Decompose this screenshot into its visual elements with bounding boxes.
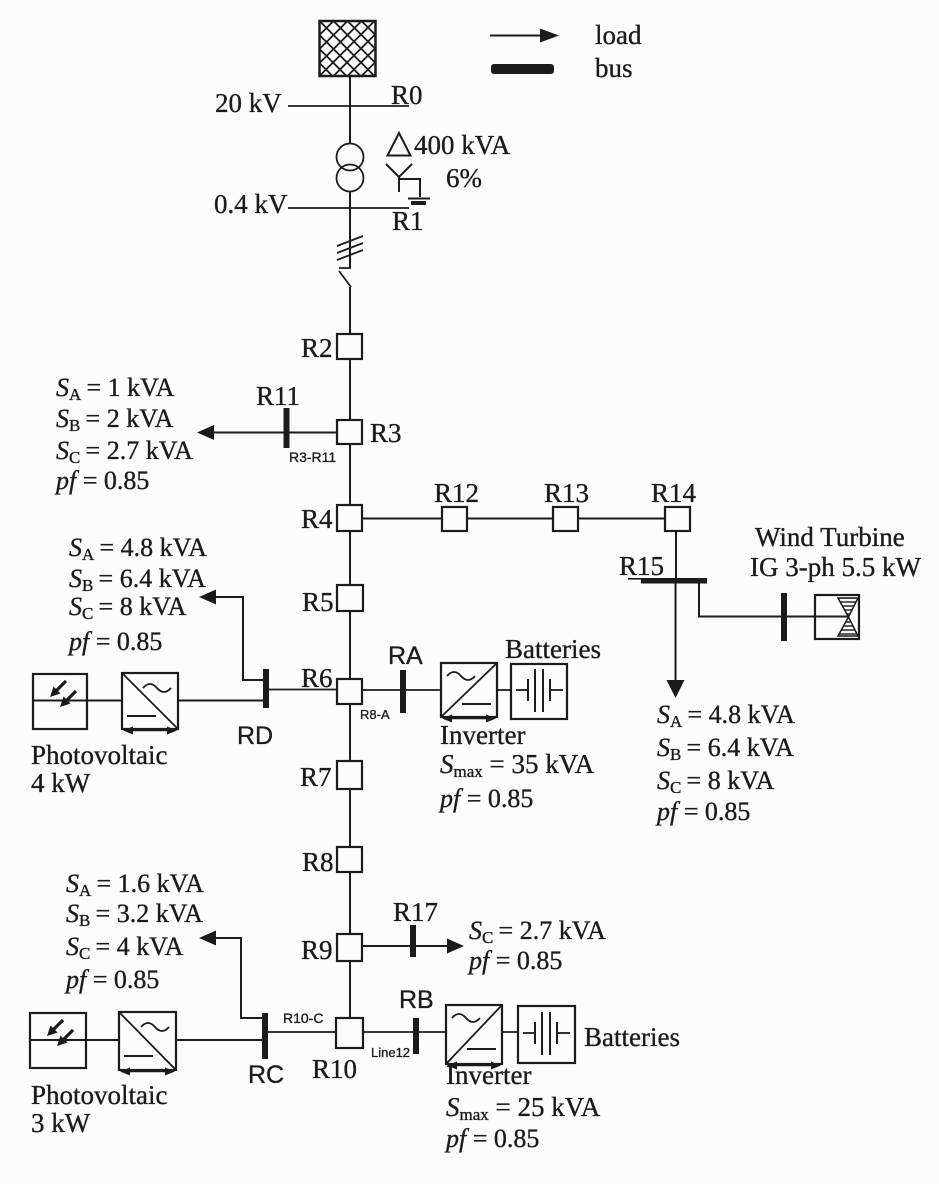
wire R3 to R4	[349, 444, 351, 505]
wire R6 to R7	[349, 704, 351, 761]
svg-text:Inverter: Inverter	[440, 720, 525, 750]
svg-text:pf = 0.85: pf = 0.85	[438, 784, 533, 813]
node R8 box	[337, 847, 362, 872]
svg-text:R10: R10	[312, 1054, 357, 1084]
svg-text:pf = 0.85: pf = 0.85	[67, 627, 162, 656]
svg-text:RD: RD	[237, 722, 273, 750]
svg-text:R10-C: R10-C	[283, 1010, 323, 1026]
wire RD bus to R6	[269, 689, 337, 691]
svg-text:0.4 kV: 0.4 kV	[214, 189, 288, 219]
load text block right of arrow	[655, 700, 795, 826]
legend bus bar	[491, 64, 554, 74]
wire inverter to RC bus	[176, 1039, 263, 1041]
svg-text:RB: RB	[399, 986, 434, 1014]
delta winding symbol	[388, 133, 411, 156]
svg-text:SB = 6.4 kVA: SB = 6.4 kVA	[657, 733, 794, 764]
transformer T1	[337, 144, 364, 192]
svg-text:R12: R12	[434, 478, 479, 508]
svg-text:pf = 0.85: pf = 0.85	[467, 946, 562, 975]
battery inverter box (35kVA)	[441, 663, 497, 723]
svg-text:Photovoltaic: Photovoltaic	[31, 1080, 168, 1110]
svg-text:pf = 0.85: pf = 0.85	[444, 1124, 539, 1153]
battery inverter box (25kVA)	[446, 1005, 502, 1070]
wind turbine rotor symbol	[838, 598, 858, 617]
svg-text:pf = 0.85: pf = 0.85	[64, 965, 159, 994]
branch R3 to R11 load	[212, 432, 337, 434]
svg-text:4 kW: 4 kW	[31, 768, 91, 798]
wire switch to R2	[349, 287, 351, 334]
batteries box (25kVA)	[518, 1006, 575, 1063]
wire R9 to R10	[349, 961, 351, 1018]
node R4 box	[337, 505, 362, 531]
load text block 2	[67, 533, 207, 656]
wire R14 down to R15 bus	[675, 531, 677, 578]
branch R4 to R14	[362, 518, 677, 520]
node R14 box	[665, 507, 690, 531]
svg-text:R0: R0	[391, 80, 423, 110]
svg-text:pf = 0.85: pf = 0.85	[54, 466, 149, 495]
svg-text:R4: R4	[301, 504, 333, 534]
load arrow below R15	[675, 583, 677, 684]
bus R17 bar	[410, 925, 416, 957]
wire RC bus to R10	[268, 1031, 336, 1033]
svg-text:SB = 6.4 kVA: SB = 6.4 kVA	[69, 564, 206, 595]
0.4 kV line	[288, 207, 409, 209]
load text block 3	[64, 869, 204, 994]
svg-text:R6: R6	[301, 663, 333, 693]
svg-text:SC = 8 kVA: SC = 8 kVA	[69, 592, 187, 623]
photovoltaic panel 4kW box	[33, 674, 87, 729]
load arrow at R17	[447, 939, 464, 954]
wire PV to inverter	[87, 700, 122, 702]
svg-text:Batteries: Batteries	[584, 1022, 680, 1052]
svg-text:IG 3-ph 5.5 kW: IG 3-ph 5.5 kW	[750, 552, 921, 582]
svg-text:R2: R2	[301, 333, 333, 363]
svg-text:6%: 6%	[446, 163, 482, 193]
svg-text:SC = 2.7 kVA: SC = 2.7 kVA	[56, 436, 193, 467]
svg-text:Photovoltaic: Photovoltaic	[31, 740, 168, 770]
wire R5 to R6	[349, 611, 351, 679]
node R2 box	[337, 334, 362, 359]
wire inverter to batteries	[497, 689, 511, 691]
PV inverter box (4kW)	[122, 673, 178, 735]
svg-text:SA = 4.8 kVA: SA = 4.8 kVA	[69, 533, 207, 564]
load text block 1	[54, 373, 193, 495]
bus RB bar	[413, 1018, 419, 1054]
wire R2 to R3	[349, 359, 351, 420]
svg-text:SB = 2 kVA: SB = 2 kVA	[56, 404, 174, 435]
wire PV to inverter	[86, 1039, 119, 1041]
svg-text:SC = 8 kVA: SC = 8 kVA	[657, 766, 775, 797]
bus RD bar	[263, 669, 269, 708]
svg-text:R7: R7	[300, 762, 332, 792]
wye winding symbol with ground	[386, 164, 430, 203]
svg-text:SB = 3.2 kVA: SB = 3.2 kVA	[66, 899, 203, 930]
load arrow elbow to RD bus	[214, 597, 263, 680]
svg-text:R17: R17	[393, 897, 438, 927]
svg-text:RA: RA	[388, 642, 423, 670]
svg-text:SA = 1.6 kVA: SA = 1.6 kVA	[66, 869, 204, 900]
bus RC bar	[262, 1013, 268, 1059]
node R13 box	[553, 507, 578, 531]
node R12 box	[442, 507, 467, 531]
batteries box (35kVA)	[511, 664, 567, 719]
svg-text:Wind Turbine: Wind Turbine	[755, 522, 905, 552]
wire R15 bus to wind turbine	[699, 583, 849, 617]
svg-text:R14: R14	[651, 478, 697, 508]
svg-text:Inverter: Inverter	[446, 1060, 531, 1090]
node R7 box	[337, 761, 362, 789]
svg-text:R9: R9	[301, 935, 333, 965]
svg-text:3 kW: 3 kW	[31, 1108, 91, 1138]
bus R11 bar	[284, 408, 290, 448]
svg-text:R3-R11: R3-R11	[289, 449, 336, 465]
svg-text:R11: R11	[256, 381, 300, 411]
bus R15 bar	[641, 578, 707, 584]
fuse slashes	[337, 236, 363, 260]
wire R8 to R9	[349, 872, 351, 934]
wire R4 to R5	[349, 531, 351, 585]
wire inverter to batteries	[502, 1031, 518, 1033]
wind turbine IG box	[815, 595, 859, 639]
wire grid to 20kV	[349, 76, 351, 143]
bus RA bar	[400, 670, 406, 713]
svg-text:400 kVA: 400 kVA	[414, 130, 511, 160]
svg-text:pf = 0.85: pf = 0.85	[655, 797, 750, 826]
svg-text:load: load	[595, 20, 642, 50]
svg-text:20 kV: 20 kV	[215, 88, 282, 118]
node R9 box	[337, 934, 362, 961]
wind bus bar	[781, 593, 787, 641]
node R3 box	[337, 420, 362, 444]
load arrow elbow to RC bus	[214, 938, 262, 1018]
load arrow at R11	[197, 425, 214, 440]
svg-text:Smax = 25 kVA: Smax = 25 kVA	[446, 1092, 601, 1124]
svg-text:R8-A: R8-A	[360, 707, 390, 722]
node R10 box	[336, 1018, 363, 1048]
wire transformer to switch	[349, 192, 351, 269]
wire R6 to inverter via RA	[362, 689, 441, 691]
svg-text:Line12: Line12	[371, 1045, 410, 1060]
switch contact	[339, 268, 351, 287]
wire R10 to RB bus	[363, 1031, 446, 1033]
node R5 box	[337, 585, 363, 611]
svg-text:SC = 4 kVA: SC = 4 kVA	[66, 932, 184, 963]
wire inverter to RD bus	[178, 700, 264, 702]
utility grid source box	[320, 21, 376, 76]
PV inverter box (3kW)	[119, 1012, 176, 1076]
legend load arrow	[490, 29, 559, 43]
svg-text:R8: R8	[302, 847, 334, 877]
wire R7 to R8	[349, 789, 351, 847]
svg-text:Batteries: Batteries	[505, 634, 601, 664]
node R6 box	[337, 679, 362, 704]
svg-text:R15: R15	[619, 551, 664, 581]
svg-text:SA = 4.8 kVA: SA = 4.8 kVA	[657, 700, 795, 731]
20 kV line	[288, 105, 409, 107]
svg-text:R1: R1	[392, 206, 424, 236]
svg-text:RC: RC	[248, 1061, 284, 1089]
svg-text:R3: R3	[370, 418, 402, 448]
svg-text:bus: bus	[595, 53, 633, 83]
svg-text:Smax = 35 kVA: Smax = 35 kVA	[440, 749, 595, 781]
svg-text:SC = 2.7 kVA: SC = 2.7 kVA	[469, 916, 606, 947]
photovoltaic panel 3kW box	[30, 1013, 86, 1068]
svg-text:SA = 1 kVA: SA = 1 kVA	[56, 373, 175, 404]
svg-text:R13: R13	[544, 478, 589, 508]
branch R9 to R17 load	[362, 945, 449, 947]
svg-text:R5: R5	[302, 587, 334, 617]
